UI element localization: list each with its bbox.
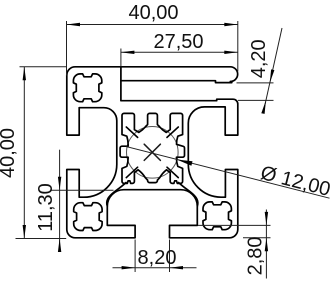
diagonal brace edge bottom-left [107, 183, 126, 207]
extension line lower for 4,20 [238, 99, 274, 101]
profile top-left corner, top face edge and left upper wall with slot lip [67, 67, 121, 135]
arrow left of 27,50 [121, 51, 134, 54]
extension line left for 8,20 [134, 240, 136, 273]
dimension line 4,20 (slanted) [264, 28, 282, 110]
central core outline with ears, tabs and screw channel notches [120, 113, 184, 183]
dimension line 8,20 [113, 267, 197, 269]
profile main outline: left T-slot cavity, bottom T-slot with lips, right T-slot, top channel [67, 67, 238, 238]
arrow left of 8,20 [122, 266, 136, 269]
svg-text:40,00: 40,00 [0, 128, 19, 178]
dimension line 11,30 [59, 150, 61, 252]
arrow bottom of 40,00 left [23, 225, 26, 239]
corner screw hole top-left [73, 74, 101, 102]
extension line upper for 2,80 [198, 224, 271, 226]
core corner slit bottom-left [126, 167, 137, 177]
extension line bottom for left dimension 40,00 [16, 238, 67, 240]
dimension line 40,00 left [23, 67, 25, 239]
extension line left for top dimension 40,00 [66, 21, 68, 76]
dimension line 2,80 [265, 210, 267, 279]
extension line upper for 4,20 [237, 82, 274, 84]
arrow upper of 2,80 [265, 212, 268, 226]
arrow right of 27,50 [224, 51, 238, 54]
svg-text:8,20: 8,20 [138, 247, 177, 269]
dimension line 40,00 top [67, 24, 238, 26]
arrow left of 40,00 top [67, 23, 81, 26]
extension line right for 8,20 [169, 240, 171, 273]
top cover strip (closed face) with rounded right end [121, 67, 238, 83]
svg-text:11,30: 11,30 [35, 183, 57, 232]
arrow top of 40,00 left [23, 67, 26, 81]
svg-text:4,20: 4,20 [248, 39, 270, 78]
arrow lower of 11,30 [58, 239, 61, 253]
leader line for Ø 12,00 [126, 147, 329, 199]
svg-text:40,00: 40,00 [128, 2, 178, 24]
leader arrowhead at bore circle [177, 160, 193, 166]
dimension line 27,50 [121, 51, 238, 53]
arrow lower of 2,80 [265, 238, 268, 252]
core corner slit bottom-right [167, 167, 178, 177]
diagonal brace edge bottom-right [179, 183, 198, 207]
extension line for 11,30 [50, 189, 114, 191]
svg-text:Ø 12,00: Ø 12,00 [258, 162, 330, 201]
extension line top for left dimension 40,00 [20, 66, 67, 68]
corner screw hole bottom-left [74, 203, 102, 231]
extension line left for 27,50 [120, 49, 122, 67]
extension line right for top dimensions [237, 21, 239, 72]
core corner slit top-right [167, 127, 178, 137]
extension line lower for 2,80 [243, 237, 271, 239]
arrow right of 8,20 [170, 266, 184, 269]
centermark X [144, 144, 160, 160]
arrow right of 40,00 top [224, 23, 238, 26]
arrow upper of 11,30 [58, 177, 61, 191]
svg-text:2,80: 2,80 [244, 236, 266, 275]
core corner slit top-left [126, 127, 137, 137]
center bore circle Ø12 [127, 127, 179, 179]
svg-text:27,50: 27,50 [153, 31, 203, 53]
arrow lower of 4,20 [261, 100, 266, 114]
corner screw hole bottom-right [203, 202, 231, 230]
arrow upper of 4,20 [270, 69, 275, 83]
